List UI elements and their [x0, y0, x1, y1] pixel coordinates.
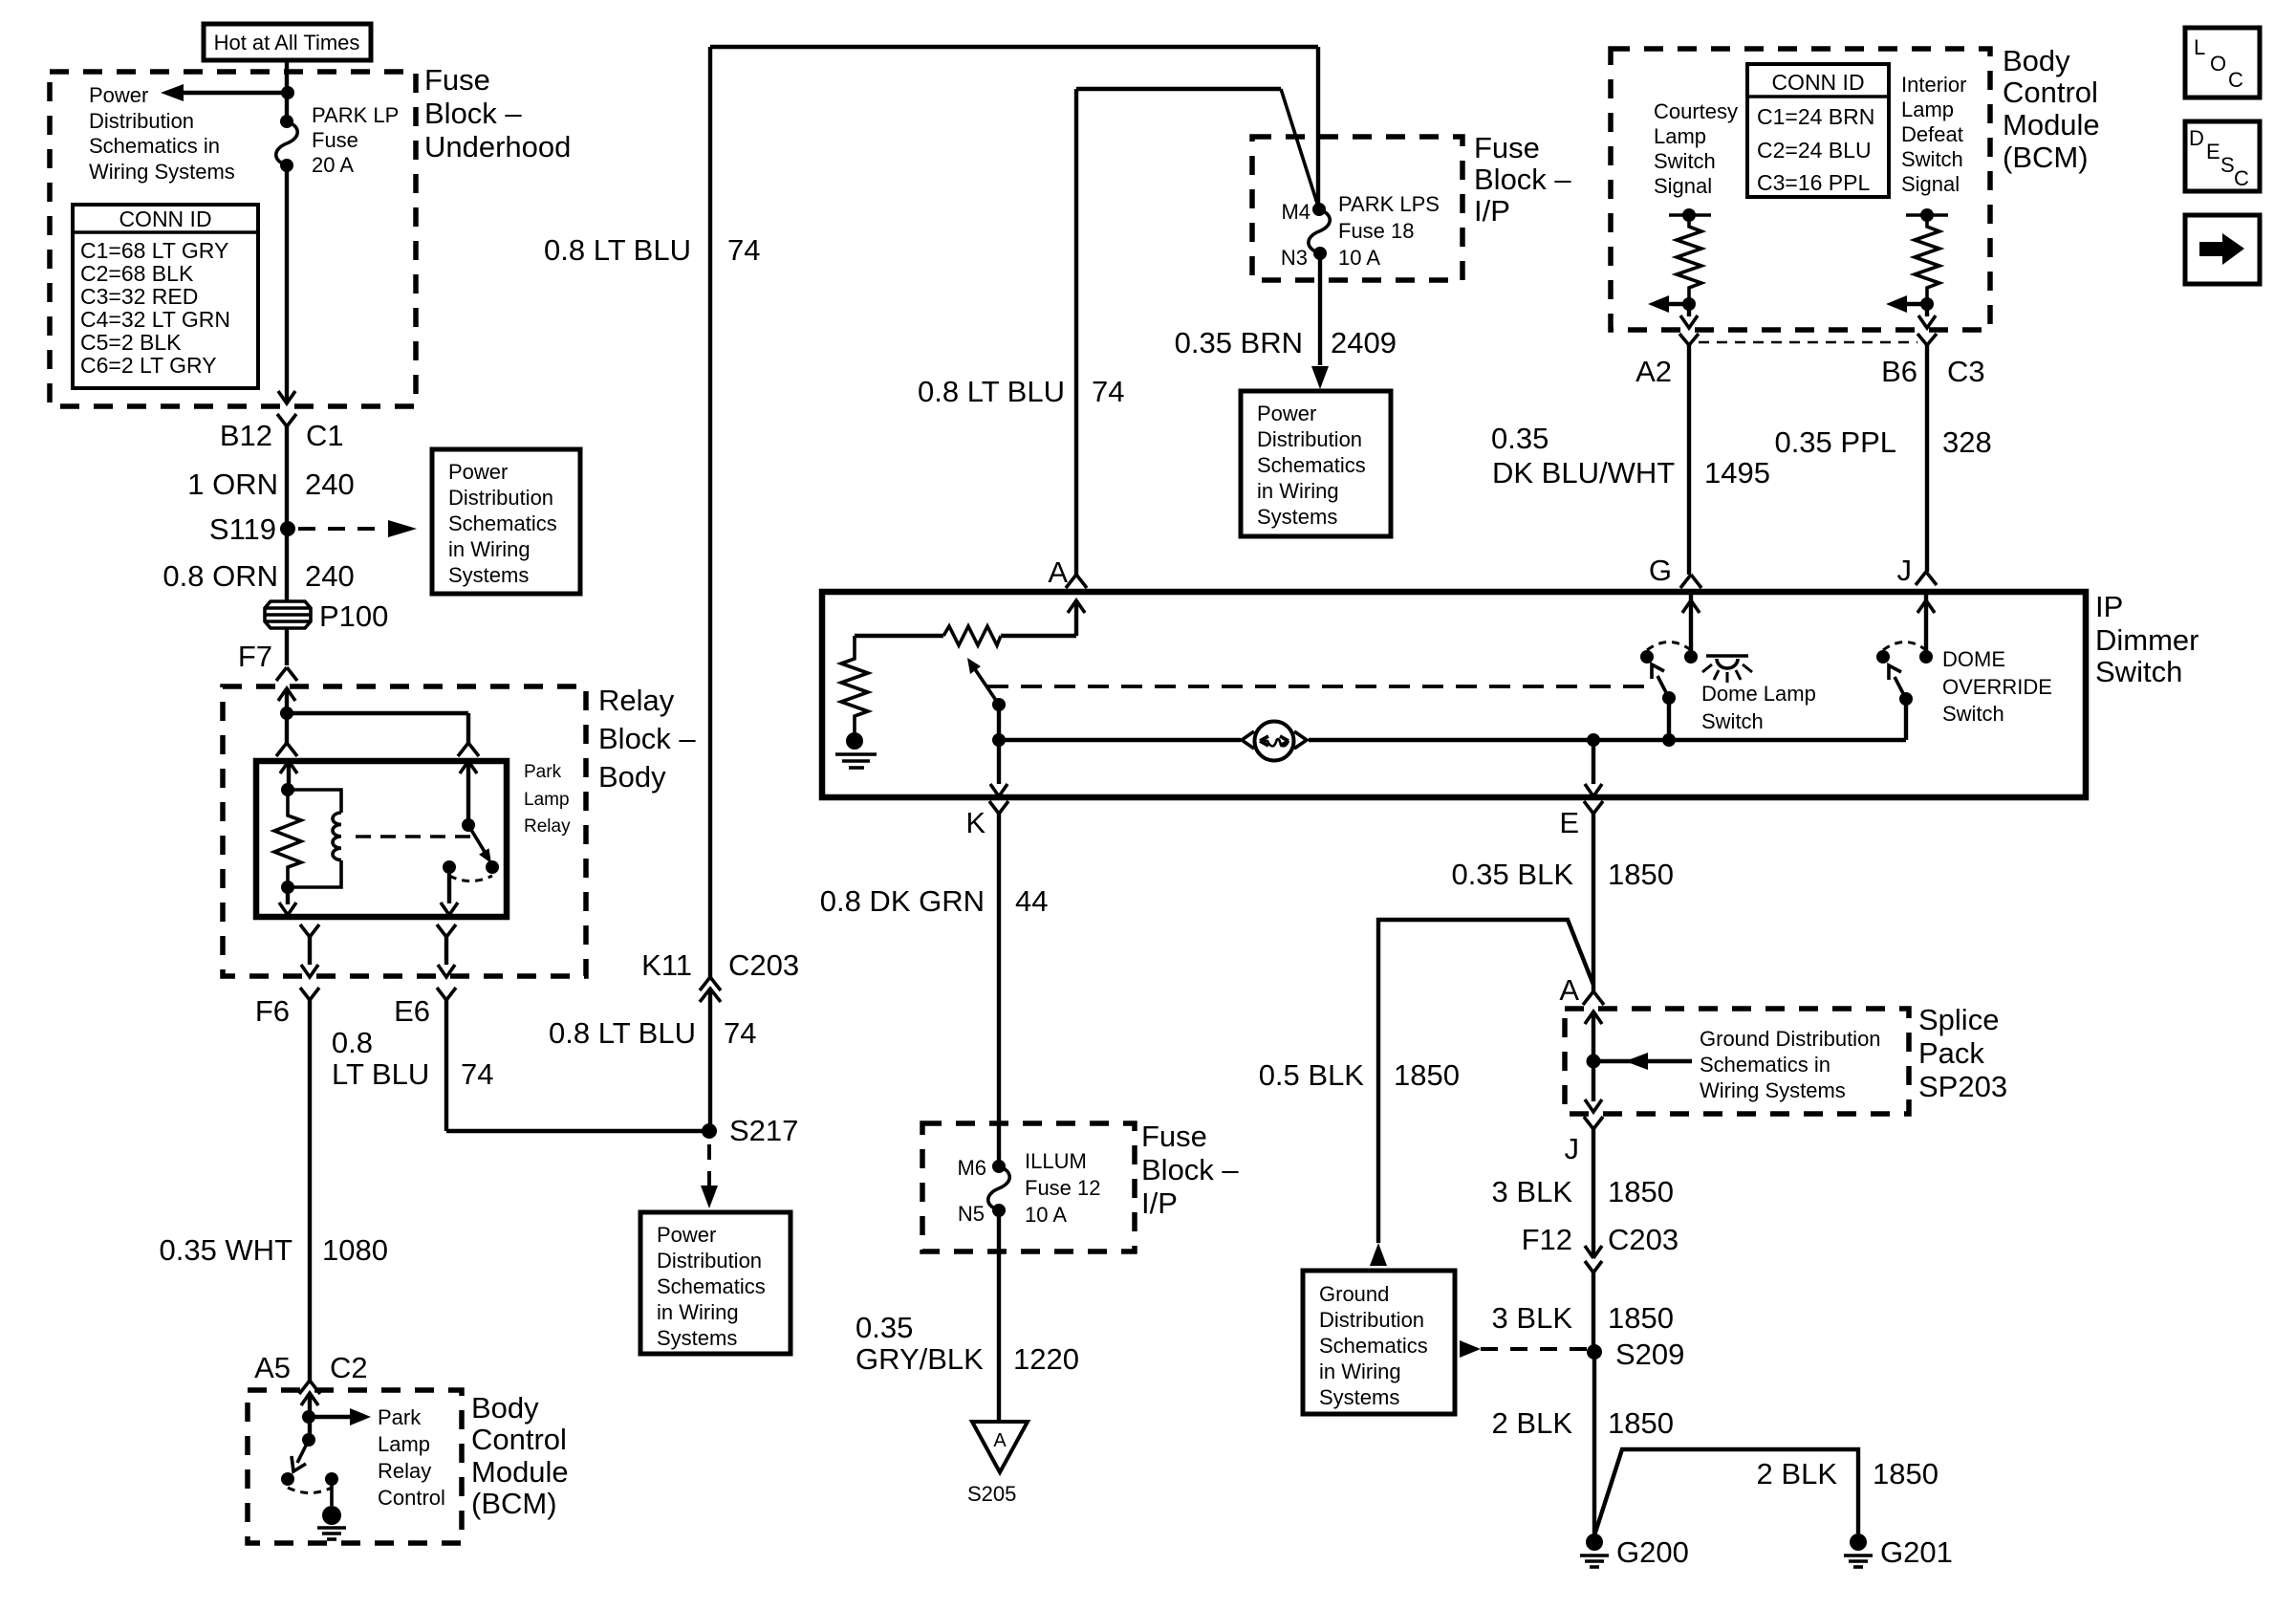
label Splice Pack SP203: [1918, 1003, 2007, 1103]
node E junction: [1587, 733, 1600, 747]
relay switch blade: [468, 825, 491, 863]
svg-text:0.8 DK GRN: 0.8 DK GRN: [820, 884, 985, 918]
svg-text:0.35 PPL: 0.35 PPL: [1774, 425, 1896, 459]
svg-text:N3: N3: [1281, 246, 1308, 270]
svg-text:Switch: Switch: [1654, 149, 1716, 173]
wire split horizontal: [287, 711, 468, 715]
svg-text:in Wiring: in Wiring: [657, 1300, 739, 1324]
LOC icon: [2185, 28, 2260, 98]
svg-text:A: A: [1048, 555, 1068, 589]
relay coil pin (left): [280, 761, 297, 796]
pin B6 C3: [1881, 334, 1985, 388]
svg-text:A2: A2: [1635, 355, 1672, 388]
S209 dashed reference arrow: [1460, 1340, 1587, 1358]
pin A (splice pack): [1559, 973, 1604, 1061]
svg-text:K11: K11: [641, 948, 692, 982]
svg-text:Distribution: Distribution: [1319, 1308, 1424, 1332]
svg-text:C2=24 BLU: C2=24 BLU: [1757, 138, 1872, 163]
svg-text:C3: C3: [1947, 355, 1985, 388]
svg-text:Power: Power: [448, 460, 508, 484]
ground G201: [1844, 1534, 1953, 1569]
label Interior Lamp Defeat Switch Signal: [1901, 73, 1966, 196]
pin J (splice pack): [1565, 1117, 1604, 1352]
svg-text:Distribution: Distribution: [89, 109, 194, 133]
svg-text:Block –: Block –: [1474, 163, 1571, 196]
svg-text:Distribution: Distribution: [448, 486, 553, 510]
wire into BCM: [301, 1393, 318, 1440]
wire coil return to pin: [279, 887, 296, 915]
svg-text:PARK LP: PARK LP: [312, 103, 399, 127]
relay output wire: [441, 874, 458, 915]
svg-text:(BCM): (BCM): [2003, 141, 2089, 174]
illumination lamp symbol: [1242, 722, 1307, 761]
DESC icon: [2185, 121, 2260, 191]
splice symbol S205: [967, 1422, 1028, 1506]
svg-text:Schematics: Schematics: [1257, 453, 1366, 477]
wire label 3 BLK 1850 (2): [1492, 1301, 1674, 1335]
label Fuse Block I/P (illum): [1141, 1120, 1239, 1220]
svg-text:0.5 BLK: 0.5 BLK: [1259, 1058, 1365, 1092]
svg-text:74: 74: [727, 233, 760, 267]
svg-text:Systems: Systems: [657, 1326, 737, 1350]
svg-text:Schematics: Schematics: [1319, 1334, 1428, 1358]
svg-text:G201: G201: [1880, 1535, 1953, 1569]
svg-text:0.8 LT BLU: 0.8 LT BLU: [544, 233, 691, 267]
svg-text:G200: G200: [1616, 1535, 1689, 1569]
svg-text:F7: F7: [238, 640, 272, 673]
svg-text:M6: M6: [957, 1156, 986, 1180]
relay block bottom pin left (F6): [255, 925, 319, 1028]
svg-text:C1=68 LT GRY: C1=68 LT GRY: [80, 238, 228, 263]
svg-text:Wiring Systems: Wiring Systems: [89, 160, 235, 184]
label Dome Lamp Switch: [1701, 682, 1816, 733]
svg-text:L: L: [2194, 35, 2205, 59]
svg-text:I/P: I/P: [1141, 1186, 1178, 1220]
svg-text:C: C: [2234, 166, 2249, 190]
svg-text:0.8 ORN: 0.8 ORN: [162, 559, 278, 593]
label Fuse Block I/P: [1474, 131, 1571, 228]
Hot at All Times label box: [204, 24, 371, 60]
wire left drop to relay pin: [276, 713, 297, 756]
relay block bottom pin right (E6): [394, 925, 456, 1028]
label IP Dimmer Switch: [2095, 590, 2199, 688]
svg-text:2409: 2409: [1331, 326, 1397, 359]
svg-text:N5: N5: [958, 1202, 985, 1226]
wire 0.35 BRN 2409: [1175, 253, 1397, 389]
coil (relay): [288, 790, 341, 887]
svg-text:44: 44: [1015, 884, 1048, 918]
svg-text:B12: B12: [220, 419, 272, 452]
svg-text:GRY/BLK: GRY/BLK: [856, 1342, 984, 1376]
wire 0.35 GRY/BLK 1220: [856, 1210, 1079, 1420]
wire E drop: [1585, 740, 1602, 796]
wire to G200: [1592, 1352, 1596, 1534]
svg-text:Module: Module: [2003, 108, 2100, 141]
svg-text:Fuse 12: Fuse 12: [1025, 1176, 1101, 1200]
label Body Control Module (BCM): [2003, 44, 2100, 174]
svg-text:2 BLK: 2 BLK: [1492, 1406, 1573, 1440]
svg-text:S217: S217: [729, 1114, 798, 1147]
node park lamp relay control: [302, 1410, 315, 1424]
svg-text:F12: F12: [1522, 1223, 1572, 1256]
svg-text:1080: 1080: [322, 1233, 388, 1267]
node S119: [209, 512, 295, 546]
svg-text:in Wiring: in Wiring: [1257, 479, 1339, 503]
mechanical dashed link: [356, 835, 474, 838]
wire K drop: [990, 740, 1007, 796]
svg-text:Wiring Systems: Wiring Systems: [1700, 1078, 1846, 1102]
fuse PARK LPS 18: [1281, 192, 1440, 270]
svg-text:Switch: Switch: [2095, 655, 2182, 688]
svg-text:Schematics: Schematics: [657, 1274, 766, 1298]
svg-text:240: 240: [305, 468, 355, 501]
svg-text:A: A: [1559, 973, 1579, 1007]
wire A2 to G: 0.35 DK BLU/WHT 1495: [1491, 345, 1770, 575]
CONN ID table underhood: [73, 205, 258, 388]
connector B12 C1: [220, 414, 344, 452]
svg-text:328: 328: [1942, 425, 1992, 459]
svg-text:10 A: 10 A: [1338, 246, 1380, 270]
BCM switch: [281, 1433, 338, 1506]
power distribution box (fuse ref): [1241, 391, 1391, 536]
wire F6 0.35 WHT 1080: [159, 1000, 388, 1381]
svg-text:Signal: Signal: [1901, 172, 1960, 196]
node S209: [1587, 1338, 1684, 1371]
label Courtesy Lamp Switch Signal: [1654, 99, 1738, 198]
svg-text:Systems: Systems: [448, 563, 529, 587]
ground G200: [1580, 1534, 1689, 1569]
svg-text:Interior: Interior: [1901, 73, 1966, 97]
svg-text:1220: 1220: [1013, 1342, 1079, 1376]
dome lamp switch: [1640, 575, 1701, 747]
ground (BCM): [317, 1506, 346, 1539]
label Fuse Block Underhood: [424, 63, 571, 163]
svg-text:Distribution: Distribution: [657, 1249, 762, 1273]
mechanical dashed link wiper to dome switch: [987, 685, 1653, 688]
svg-text:Defeat: Defeat: [1901, 122, 1963, 146]
svg-text:Relay: Relay: [378, 1459, 431, 1483]
svg-text:C1: C1: [306, 419, 344, 452]
svg-text:Relay: Relay: [598, 684, 675, 717]
svg-text:1850: 1850: [1608, 1175, 1674, 1208]
svg-text:74: 74: [1092, 375, 1124, 408]
svg-text:SP203: SP203: [1918, 1070, 2007, 1103]
dashed travel arc: [449, 876, 492, 881]
svg-text:1850: 1850: [1608, 858, 1674, 891]
svg-text:C6=2 LT GRY: C6=2 LT GRY: [80, 353, 217, 378]
lamp wire right: [1309, 738, 1906, 742]
svg-text:Control: Control: [471, 1423, 567, 1456]
svg-text:C203: C203: [1608, 1223, 1679, 1256]
potentiometer wiper arrow: [967, 658, 1006, 740]
svg-text:F6: F6: [255, 994, 290, 1028]
svg-text:Splice: Splice: [1918, 1003, 1999, 1036]
resistor to ground (dimmer): [841, 636, 868, 732]
node split: [280, 707, 293, 720]
svg-text:Park: Park: [378, 1405, 422, 1429]
wire hot box to fuse: [285, 60, 289, 121]
svg-text:Body: Body: [598, 760, 666, 794]
wire E6 0.8 LT BLU 74: [332, 1000, 709, 1131]
pin G: [1649, 554, 1672, 587]
label Relay Block Body: [598, 684, 696, 794]
wire right drop to relay pin: [458, 713, 479, 756]
ground (dimmer): [835, 732, 877, 768]
ground distribution box: [1303, 1271, 1455, 1414]
svg-text:Body: Body: [471, 1391, 539, 1425]
svg-text:E6: E6: [394, 994, 430, 1028]
park lamp relay control arrow: [309, 1408, 371, 1425]
svg-text:DK BLU/WHT: DK BLU/WHT: [1492, 456, 1675, 490]
pin A (dimmer): [1048, 555, 1087, 589]
svg-text:C4=32 LT GRN: C4=32 LT GRN: [80, 307, 230, 332]
svg-text:Hot at All Times: Hot at All Times: [214, 31, 360, 54]
svg-text:1 ORN: 1 ORN: [187, 468, 278, 501]
svg-text:2 BLK: 2 BLK: [1757, 1457, 1838, 1490]
pin K below dimmer: [965, 801, 1008, 1161]
svg-text:Ground Distribution: Ground Distribution: [1700, 1027, 1881, 1051]
Body Control Module dashed box (bottom left): [248, 1390, 462, 1543]
resistor interior lamp defeat switch signal: [1906, 208, 1948, 304]
dome lamp icon: [1702, 656, 1752, 683]
power distribution box (S217 ref): [640, 1212, 791, 1354]
svg-text:Pack: Pack: [1918, 1036, 1984, 1070]
svg-text:E: E: [2206, 140, 2220, 163]
fuse PARK LP 20A: [276, 115, 298, 172]
svg-text:Fuse: Fuse: [1141, 1120, 1207, 1153]
svg-text:0.35 BRN: 0.35 BRN: [1175, 326, 1303, 359]
svg-text:Courtesy: Courtesy: [1654, 99, 1738, 123]
svg-text:1495: 1495: [1704, 456, 1770, 490]
svg-text:Schematics in: Schematics in: [89, 134, 220, 158]
svg-text:Systems: Systems: [1319, 1385, 1399, 1409]
svg-text:Control: Control: [2003, 76, 2098, 109]
svg-text:CONN ID: CONN ID: [1771, 70, 1864, 95]
svg-text:Block –: Block –: [424, 97, 522, 130]
svg-text:240: 240: [305, 559, 355, 593]
svg-text:P100: P100: [319, 599, 388, 633]
svg-text:Lamp: Lamp: [378, 1432, 430, 1456]
svg-text:Control: Control: [378, 1486, 445, 1510]
svg-text:Dimmer: Dimmer: [2095, 623, 2199, 657]
dome override switch: [1876, 572, 1937, 740]
svg-text:S209: S209: [1615, 1338, 1684, 1371]
svg-text:Switch: Switch: [1701, 709, 1764, 733]
wire to potentiometer: [855, 634, 943, 638]
connector K11 C203: [641, 948, 799, 1131]
svg-text:Dome Lamp: Dome Lamp: [1701, 682, 1816, 706]
svg-text:D: D: [2189, 126, 2204, 150]
svg-text:in Wiring: in Wiring: [1319, 1360, 1401, 1383]
pin E below dimmer: [1559, 801, 1603, 991]
svg-text:0.35: 0.35: [856, 1311, 913, 1344]
svg-text:Fuse 18: Fuse 18: [1338, 219, 1415, 243]
splice pack interior: [1585, 1012, 1881, 1112]
svg-text:Park: Park: [524, 762, 562, 782]
svg-text:3 BLK: 3 BLK: [1492, 1301, 1573, 1335]
connector pin dashed link below BCM: [1699, 341, 1917, 344]
svg-text:G: G: [1649, 554, 1672, 587]
svg-text:DOME: DOME: [1942, 647, 2005, 671]
svg-text:0.8: 0.8: [332, 1026, 373, 1059]
svg-text:Ground: Ground: [1319, 1282, 1389, 1306]
svg-text:Module: Module: [471, 1455, 569, 1489]
svg-text:I/P: I/P: [1474, 194, 1510, 228]
svg-text:S119: S119: [209, 512, 276, 546]
next page arrow icon: [2185, 215, 2260, 284]
svg-text:C: C: [2228, 68, 2243, 92]
svg-text:Relay: Relay: [524, 816, 571, 837]
svg-text:OVERRIDE: OVERRIDE: [1942, 675, 2052, 699]
svg-text:Fuse: Fuse: [312, 128, 358, 152]
svg-text:1850: 1850: [1873, 1457, 1939, 1490]
svg-text:K: K: [965, 806, 986, 839]
svg-text:Signal: Signal: [1654, 174, 1712, 198]
svg-text:0.8 LT BLU: 0.8 LT BLU: [918, 375, 1065, 408]
resistor courtesy lamp switch signal: [1669, 208, 1711, 304]
splice pack SP203 dashed box: [1565, 1009, 1909, 1114]
wire top feed 0.8 LT BLU: [544, 47, 1318, 977]
svg-text:Fuse: Fuse: [424, 63, 490, 97]
svg-text:1850: 1850: [1394, 1058, 1460, 1092]
label DOME OVERRIDE Switch: [1942, 647, 2052, 726]
connector A5 C2: [254, 1351, 368, 1394]
Relay Block Body dashed box: [223, 686, 586, 976]
node coil bottom: [281, 881, 294, 894]
svg-text:IP: IP: [2095, 590, 2123, 623]
svg-text:Power: Power: [89, 83, 148, 107]
svg-text:CONN ID: CONN ID: [119, 207, 211, 231]
connector P100: [265, 599, 388, 633]
svg-text:74: 74: [461, 1057, 493, 1091]
svg-text:C2: C2: [330, 1351, 368, 1384]
pin J: [1897, 554, 1913, 587]
svg-text:0.8 LT BLU: 0.8 LT BLU: [549, 1016, 696, 1050]
svg-text:74: 74: [724, 1016, 756, 1050]
svg-text:Power: Power: [657, 1223, 716, 1247]
svg-text:Block –: Block –: [598, 722, 696, 755]
svg-text:Schematics: Schematics: [448, 511, 557, 535]
CONN ID table (BCM): [1747, 64, 1889, 197]
wire label 0.8 LT BLU 74 (middle): [549, 1016, 756, 1050]
interior output arrows: [1886, 295, 1936, 328]
svg-text:Underhood: Underhood: [424, 130, 571, 163]
connector F12 C203: [1522, 1223, 1679, 1273]
wire label 3 BLK 1850: [1492, 1175, 1674, 1208]
svg-text:Switch: Switch: [1942, 702, 2004, 726]
wire B6/C3 to J: 0.35 PPL 328: [1774, 345, 1991, 572]
relay contacts: [443, 860, 456, 874]
label PARK LP Fuse 20 A: [312, 103, 399, 177]
wire 0.5 BLK 1850 branch: [1259, 920, 1593, 1266]
svg-text:S: S: [2220, 153, 2235, 177]
svg-text:Systems: Systems: [1257, 505, 1337, 529]
S119 dashed reference arrow: [298, 520, 417, 537]
svg-text:Distribution: Distribution: [1257, 427, 1362, 451]
pin F7: [238, 628, 297, 681]
wire label 0.8 DK GRN 44: [820, 884, 1049, 918]
svg-text:C3=16 PPL: C3=16 PPL: [1757, 170, 1870, 195]
node S217: [702, 1114, 798, 1147]
svg-text:10 A: 10 A: [1025, 1203, 1067, 1227]
svg-text:(BCM): (BCM): [471, 1487, 557, 1520]
svg-text:0.35: 0.35: [1491, 422, 1549, 455]
svg-text:20 A: 20 A: [312, 153, 354, 177]
svg-text:ILLUM: ILLUM: [1025, 1149, 1087, 1173]
svg-text:C1=24 BRN: C1=24 BRN: [1757, 104, 1874, 129]
svg-text:LT BLU: LT BLU: [332, 1057, 429, 1091]
potentiometer resistor: [943, 626, 1001, 645]
svg-text:J: J: [1565, 1132, 1580, 1165]
svg-text:O: O: [2210, 52, 2226, 76]
power distribution box (S119 ref): [432, 449, 580, 594]
svg-text:Switch: Switch: [1901, 147, 1963, 171]
svg-text:E: E: [1559, 806, 1579, 839]
node junction at power feed: [281, 86, 294, 99]
Fuse Block Underhood dashed box: [50, 72, 416, 406]
svg-text:0.35 WHT: 0.35 WHT: [159, 1233, 292, 1267]
svg-text:Fuse: Fuse: [1474, 131, 1540, 164]
svg-text:Lamp: Lamp: [524, 790, 570, 810]
wire dimmer A to fuse M4: [918, 89, 1319, 575]
label Body Control Module BCM: [471, 1391, 569, 1520]
svg-text:Schematics in: Schematics in: [1700, 1053, 1830, 1077]
svg-text:Block –: Block –: [1141, 1153, 1239, 1186]
wire branch to G201: [1594, 1449, 1939, 1535]
relay switch pin (top right): [460, 761, 477, 832]
wire pot to A pin: [1001, 600, 1085, 636]
label Park Lamp Relay Control: [378, 1405, 445, 1510]
svg-text:1850: 1850: [1608, 1406, 1674, 1440]
svg-text:C3=32 RED: C3=32 RED: [80, 284, 198, 309]
svg-text:C2=68 BLK: C2=68 BLK: [80, 261, 194, 286]
svg-text:Lamp: Lamp: [1654, 124, 1706, 148]
wire 1 ORN 240: [187, 426, 354, 602]
S217 dashed arrow down: [701, 1144, 718, 1208]
svg-text:PARK LPS: PARK LPS: [1338, 192, 1440, 216]
fuse ILLUM 12: [957, 1149, 1100, 1227]
svg-text:0.35 BLK: 0.35 BLK: [1451, 858, 1573, 891]
wire into relay block: [278, 688, 295, 713]
label Park Lamp Relay: [524, 762, 571, 837]
svg-text:A: A: [993, 1430, 1007, 1451]
svg-text:C5=2 BLK: C5=2 BLK: [80, 330, 182, 355]
svg-text:S205: S205: [967, 1482, 1016, 1506]
svg-text:C203: C203: [728, 948, 799, 982]
wire label 0.35 BLK 1850: [1451, 858, 1674, 891]
svg-text:Power: Power: [1257, 402, 1316, 425]
pin A2: [1635, 334, 1699, 388]
svg-text:Lamp: Lamp: [1901, 98, 1954, 121]
svg-text:J: J: [1897, 554, 1913, 587]
resistor (relay): [274, 790, 301, 887]
wire fuse to box bottom with arrow: [278, 165, 295, 403]
svg-text:1850: 1850: [1608, 1301, 1674, 1335]
svg-text:M4: M4: [1281, 200, 1310, 224]
power distribution text (underhood): [89, 83, 235, 184]
Park Lamp Relay box: [256, 761, 507, 917]
wire 0.8 ORN 240: [162, 559, 354, 593]
node K junction: [992, 733, 1006, 747]
svg-text:Body: Body: [2003, 44, 2070, 77]
wire label 2 BLK 1850: [1492, 1406, 1674, 1440]
courtesy output arrows: [1648, 295, 1698, 328]
svg-text:in Wiring: in Wiring: [448, 537, 531, 561]
svg-text:3 BLK: 3 BLK: [1492, 1175, 1573, 1208]
lamp wire left: [999, 738, 1241, 742]
svg-text:A5: A5: [254, 1351, 291, 1384]
svg-text:B6: B6: [1881, 355, 1917, 388]
